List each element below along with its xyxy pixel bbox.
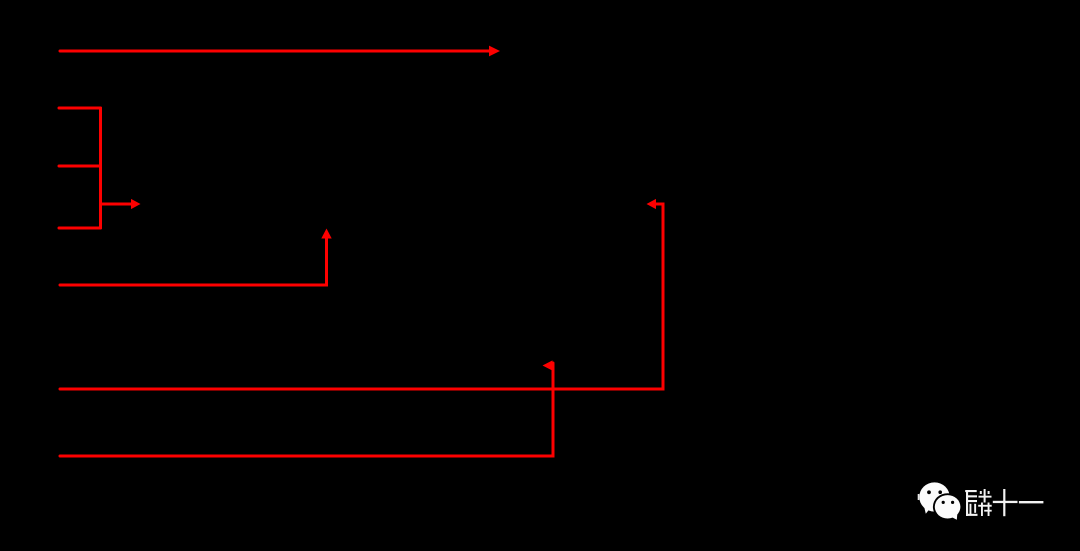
watermark text glyph lin (rice top right) (984, 489, 986, 503)
watermark text glyph yi (one) (1019, 501, 1044, 503)
wire bottom-loop polyline (60, 363, 553, 456)
watermark text glyph lin (deer radical left) (965, 490, 977, 492)
watermark wechat logo big bubble left eye (927, 490, 931, 494)
watermark wechat logo big bubble tail (924, 504, 932, 514)
wire bracket vertical (99, 108, 102, 228)
wire up-arrow polyline (60, 238, 327, 285)
arrowhead up arrow (321, 229, 331, 239)
arrowhead top arrow right (489, 46, 500, 57)
wire bracket middle tick (59, 165, 101, 168)
watermark wechat logo small bubble separation ring (933, 493, 962, 520)
arrowhead bracket arrow right (131, 199, 141, 209)
watermark text glyph lin (dance bottom right) (978, 505, 992, 507)
wire top horizontal arrow shaft (60, 50, 490, 53)
watermark wechat logo small bubble left eye (942, 501, 945, 504)
watermark wechat logo small bubble right eye (951, 501, 954, 504)
watermark wechat logo small bubble tail (951, 512, 958, 520)
watermark wechat logo big bubble (919, 482, 949, 511)
watermark wechat logo small tick (918, 494, 920, 500)
watermark text glyph shi (ten) (993, 501, 1018, 503)
wire bracket arrow shaft (101, 203, 132, 206)
wire long right-loop polyline (60, 204, 663, 389)
arrowhead left arrow at node (647,204) (647, 199, 657, 209)
watermark wechat logo big bubble right eye (938, 490, 942, 494)
wire bracket top tick (59, 107, 101, 110)
arrowhead left arrow at node (543,365) (543, 360, 553, 370)
wire bracket bottom tick (59, 227, 101, 230)
watermark wechat logo small bubble (935, 495, 961, 518)
